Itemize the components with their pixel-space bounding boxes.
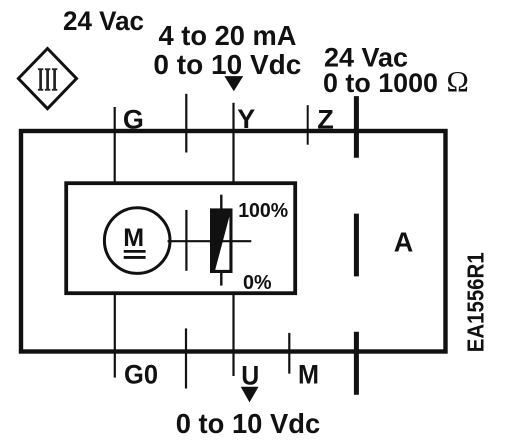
svg-text:Z: Z: [317, 105, 334, 135]
svg-text:Ω: Ω: [447, 66, 469, 99]
svg-text:M: M: [123, 224, 144, 252]
svg-text:0 to 10 Vdc: 0 to 10 Vdc: [176, 408, 321, 439]
svg-text:100%: 100%: [238, 200, 288, 222]
svg-text:M: M: [298, 359, 319, 389]
svg-text:Y: Y: [237, 104, 255, 134]
svg-text:U: U: [241, 360, 259, 390]
svg-text:EA1556R1: EA1556R1: [462, 252, 488, 352]
svg-text:A: A: [394, 227, 414, 258]
svg-text:0%: 0%: [243, 272, 272, 294]
svg-text:0 to 10 Vdc: 0 to 10 Vdc: [153, 49, 301, 80]
svg-text:4 to 20 mA: 4 to 20 mA: [159, 20, 297, 51]
svg-text:24 Vac: 24 Vac: [63, 6, 144, 36]
svg-text:0 to 1000: 0 to 1000: [323, 68, 438, 98]
svg-text:G0: G0: [124, 360, 158, 390]
svg-text:G: G: [123, 104, 144, 134]
